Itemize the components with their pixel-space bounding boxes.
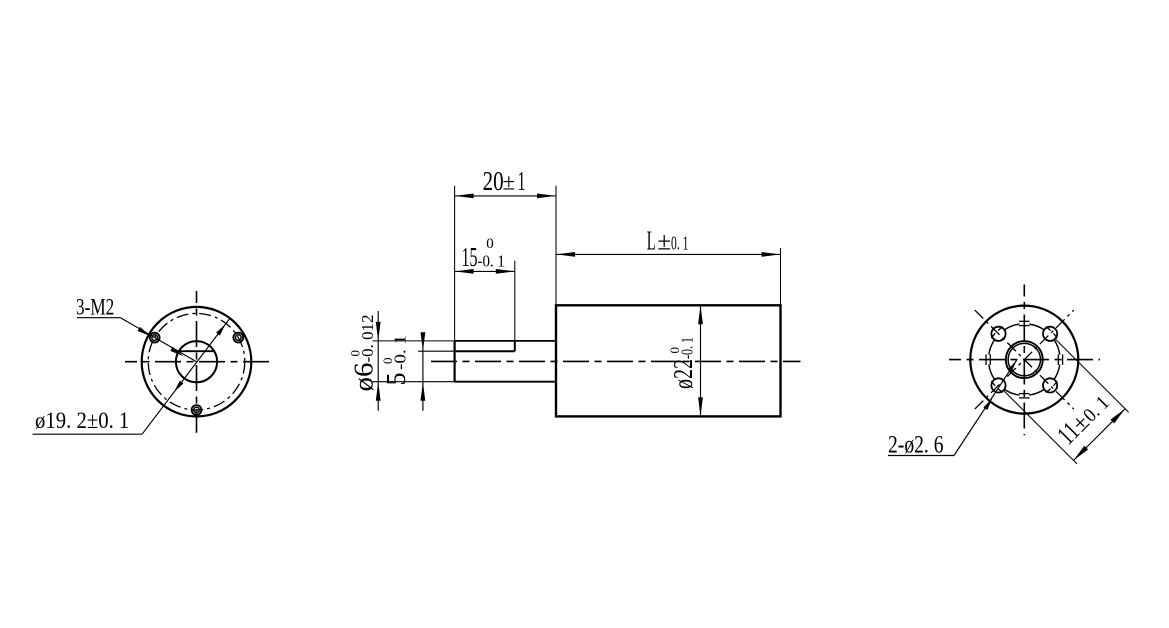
right view: case seam arc 3: [1005, 390, 1020, 395]
left view: 3-M2 leader arrowhead at shaft: [170, 347, 183, 356]
left view: shaft circle ø6: [176, 341, 217, 382]
side view: dim 5 line: [422, 333, 424, 411]
left view: dim ø19.2 arrowhead lower: [174, 381, 184, 393]
right view: boss outer circle: [1006, 341, 1043, 378]
side view: dim L left arrowhead: [556, 252, 575, 257]
right view: seam tick south r38.3: [1019, 397, 1030, 399]
left view: outer circle (gearbox body): [142, 307, 252, 417]
svg-text:0: 0: [380, 358, 395, 365]
side view: dim 20±1 line: [455, 195, 556, 197]
right view: dim 11±0.1 text (rotated): [1051, 387, 1114, 450]
left view: M2 hole upper-left thread circle: [150, 333, 160, 343]
right view: seam tick west r34.0: [989, 354, 991, 365]
side view: dim ø6 line: [377, 311, 379, 411]
side view: dim ø6 text (rotated): [348, 315, 379, 392]
side view: dim 15 left arrowhead: [455, 269, 474, 274]
left view: dim ø19.2 diagonal line: [142, 319, 229, 434]
side view: centerline: [431, 360, 801, 362]
right view: seam tick north r38.3: [1019, 320, 1030, 322]
side view: dim L line: [556, 253, 781, 255]
side view: shaft top outline: [455, 340, 556, 342]
right view: dim 11 line: [1074, 409, 1126, 461]
right view: case seam arc 5: [989, 340, 994, 355]
side view: dim ø22 line: [700, 305, 702, 416]
side view: shaft bottom extension to ø6 dim: [373, 381, 455, 383]
left view: M2 hole bottom thread circle: [192, 405, 202, 415]
left view: shaft flat chord: [179, 350, 214, 352]
side view: extension above body left face: [555, 186, 557, 306]
side view: dim L right arrowhead: [762, 252, 781, 257]
right view: case seam arc 6: [1005, 324, 1020, 329]
right view: dim 11 extension line from upper-right hole: [1056, 340, 1129, 413]
right view: seam hook arc 7: [1046, 327, 1051, 331]
right view: case seam arc 7: [1029, 324, 1044, 329]
svg-text:±: ±: [657, 229, 671, 256]
right view: seam hook arc 5: [991, 333, 995, 338]
left view: bolt circle ø19.2 (dash-dot): [148, 313, 245, 410]
right view: hole upper-left ø2.6: [991, 327, 1005, 341]
svg-text:3-M2: 3-M2: [76, 294, 114, 319]
side view: shaft bottom outline: [455, 381, 556, 383]
svg-text:-0. 1: -0. 1: [478, 251, 505, 270]
left view: dim ø19.2 arrowhead upper: [216, 324, 226, 336]
right view: seam hook arc 6: [998, 327, 1003, 331]
right view: seam hook arc 8: [1053, 333, 1057, 338]
side view: dim 20±1 left arrowhead: [455, 194, 474, 199]
left view: 3-M2 leader arrowhead at hole: [138, 327, 151, 336]
right view: boss inner circle: [1008, 343, 1040, 375]
side view: extension above body right face: [780, 248, 782, 305]
right view: seam hook arc 2: [1046, 389, 1051, 393]
right view: case seam arc 1: [1054, 365, 1059, 380]
right view: hole upper-right ø2.6: [1043, 327, 1057, 341]
svg-text:1: 1: [518, 166, 526, 196]
side view: dim ø6 top arrowhead: [376, 322, 381, 341]
left view: M2 hole upper-left tap circle: [152, 335, 158, 341]
svg-text:L: L: [647, 225, 656, 255]
right view: seam hook arc 4: [991, 381, 995, 386]
right view: seam tick east r34.0: [1057, 354, 1059, 365]
svg-text:ø19. 2±0. 1: ø19. 2±0. 1: [35, 408, 129, 433]
svg-text:20: 20: [483, 166, 504, 196]
right view: hole lower-left ø2.6: [991, 378, 1005, 392]
right view: case seam arc 8: [1054, 340, 1059, 355]
svg-text:2-ø2. 6: 2-ø2. 6: [888, 432, 944, 459]
side view: dim 15 line: [455, 270, 515, 272]
side view: dim 20±1 right arrowhead: [537, 194, 556, 199]
svg-text:ø22: ø22: [668, 359, 698, 389]
side view: dim 5 top arrowhead: [421, 332, 426, 351]
left view: M2 hole bottom tap circle: [194, 407, 200, 413]
left view: label 3-M2 leader line: [120, 318, 196, 362]
right view: diagonal centerline NW-SE: [975, 310, 1074, 409]
side view: dim 5 text (rotated): [380, 335, 411, 386]
right view: dim 11 arrowhead lower: [1074, 446, 1089, 461]
right view: case seam arc 4: [989, 365, 994, 380]
svg-text:15: 15: [462, 242, 478, 272]
right view: seam tick east r38.3: [1062, 354, 1064, 365]
left view: M2 hole upper-right thread circle: [233, 333, 243, 343]
side view: dim ø22 bottom arrowhead: [698, 397, 703, 416]
right view: seam tick north r34.0: [1019, 325, 1030, 327]
svg-text:5: 5: [381, 373, 411, 386]
right view: horizontal centerline: [949, 359, 1100, 361]
side view: extension line above flat end (15 dim right): [514, 261, 516, 341]
right view: seam tick west r38.3: [985, 354, 987, 365]
side view: shaft left face: [454, 341, 456, 382]
right view: dim 11 extension line from lower-left hole: [1004, 391, 1077, 464]
right view: seam hook arc 1: [1053, 381, 1057, 386]
right view: case seam arc 2: [1029, 390, 1044, 395]
left view: dim ø19.2 underline: [33, 433, 143, 435]
left view: label 3-M2 underline: [77, 317, 120, 319]
right view: vertical centerline: [1023, 285, 1025, 436]
side view: flat extension line to 5 dim: [418, 350, 455, 352]
right view: seam hook arc 3: [998, 389, 1003, 393]
side view: dim 15 right arrowhead: [496, 269, 515, 274]
svg-text:0. 1: 0. 1: [671, 234, 689, 255]
right view: label 2-ø2.6 leader: [954, 360, 1017, 455]
svg-text:±: ±: [503, 170, 516, 195]
svg-text:ø6: ø6: [349, 363, 379, 392]
right view: outer circle (motor body): [970, 306, 1078, 414]
left view: horizontal centerline: [125, 361, 269, 363]
right view: label 2-ø2.6 underline: [888, 455, 954, 457]
left view: M2 hole upper-right tap circle: [236, 335, 242, 341]
left view: vertical centerline: [196, 291, 198, 433]
right view: diagonal centerline SW-NE: [975, 310, 1074, 409]
svg-text:0: 0: [348, 350, 363, 357]
side view: extension line above shaft face (20 dim left): [454, 186, 456, 341]
right view: hole lower-right ø2.6: [1043, 378, 1057, 392]
side view: dim ø22 top arrowhead: [698, 305, 703, 324]
side view: shaft top extension to ø6 dim: [373, 340, 455, 342]
side view: dim ø6 bottom arrowhead: [376, 382, 381, 401]
side view: shaft flat line: [455, 350, 515, 352]
svg-text:0: 0: [667, 347, 682, 354]
right view: seam tick south r34.0: [1019, 393, 1030, 395]
svg-text:0: 0: [486, 236, 494, 252]
side view: dim 5 bottom arrowhead: [421, 382, 426, 401]
right view: 2-ø2.6 leader arrowhead at hole: [983, 398, 992, 410]
side view: motor body outline: [556, 305, 781, 416]
right view: dim 11 arrowhead upper: [1110, 409, 1125, 424]
right view: 2-ø2.6 leader arrowhead inner: [1008, 360, 1017, 372]
side view: dim ø22 text (rotated): [667, 337, 698, 389]
side view: flat end step: [514, 341, 516, 351]
